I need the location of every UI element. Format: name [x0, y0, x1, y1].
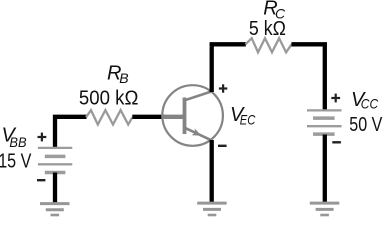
battery VBB minus sign [37, 179, 45, 181]
svg-text:50 V: 50 V [349, 114, 383, 136]
value label 5 kOhm [249, 18, 286, 40]
wire: top rail left segment [212, 44, 246, 46]
transistor Q1 circle [162, 85, 223, 146]
svg-text:500 kΩ: 500 kΩ [79, 88, 139, 110]
svg-text:EC: EC [240, 112, 256, 128]
value label 500 kOhm [79, 88, 139, 110]
transistor Q1 base bar [183, 98, 187, 135]
battery V2 (VCC) plates [307, 110, 342, 134]
transistor Q1 base lead [162, 115, 183, 119]
label VEC minus sign [218, 145, 227, 147]
battery V1 (VBB) plates [38, 148, 72, 173]
label VEC plus sign [219, 84, 227, 92]
label VCC [351, 89, 379, 112]
wire: VCC battery to ground [323, 135, 327, 203]
wire: VBB top lead to base (node B) [55, 117, 87, 148]
wire: emitter to ground [210, 140, 214, 203]
svg-text:5 kΩ: 5 kΩ [249, 18, 286, 40]
value label 15 V [0, 151, 32, 173]
label RC [263, 0, 286, 22]
label VBB [2, 124, 27, 150]
battery VBB plus sign [38, 133, 47, 142]
value label 50 V [349, 114, 383, 136]
label VEC [230, 104, 256, 128]
resistor R2 (RC) zigzag [246, 38, 292, 52]
transistor Q1 collector lead [185, 91, 212, 100]
svg-text:B: B [119, 70, 128, 86]
svg-text:CC: CC [361, 96, 379, 112]
wire: VBB battery to ground [53, 173, 57, 203]
battery VCC minus sign [332, 141, 341, 143]
label RB [107, 63, 129, 86]
ground (emitter) [197, 203, 227, 215]
battery VCC plus sign [331, 94, 340, 103]
wire: RB to transistor base [132, 115, 165, 119]
wire: top rail right segment down to VCC battery [291, 44, 324, 110]
svg-text:BB: BB [9, 134, 26, 150]
wire: collector up to node C [210, 46, 214, 92]
transistor Q1 emitter lead [185, 128, 212, 141]
svg-text:15 V: 15 V [0, 151, 32, 173]
ground (VCC) [310, 203, 340, 215]
transistor Q1 emitter arrowhead [192, 128, 202, 135]
ground (VBB) [40, 204, 70, 215]
resistor R1 (RB) zigzag [86, 110, 133, 124]
